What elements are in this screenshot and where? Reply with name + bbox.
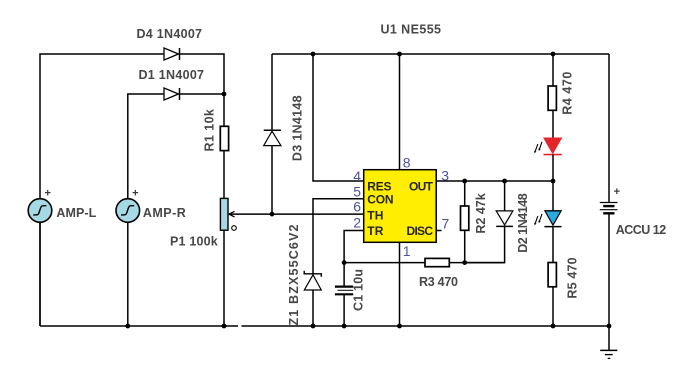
resistor R3 bbox=[425, 258, 449, 266]
node R2 bottom junction bbox=[462, 260, 467, 265]
svg-text:2: 2 bbox=[353, 215, 361, 231]
svg-text:TH: TH bbox=[367, 209, 383, 223]
wire wiper to TH bbox=[229, 213, 364, 215]
wire pin1 to rail bbox=[399, 242, 401, 326]
wire blue LED to R5 bbox=[552, 227, 554, 263]
node TR/C1/R3 junction bbox=[342, 260, 347, 265]
op-amp U1 NE555 body bbox=[364, 170, 437, 243]
wire RES pin4 bbox=[313, 54, 364, 181]
svg-text:8: 8 bbox=[403, 154, 411, 170]
svg-text:U1 NE555: U1 NE555 bbox=[381, 22, 442, 36]
wire pin8 bbox=[399, 54, 401, 170]
resistor R1 bbox=[220, 126, 228, 150]
wire R2 top bbox=[464, 181, 466, 206]
wire D4 to corner down bbox=[180, 54, 225, 94]
zener Z1 bbox=[304, 271, 321, 290]
wire R5 to rail bbox=[552, 287, 554, 326]
svg-text:ACCU 12: ACCU 12 bbox=[616, 223, 667, 237]
node OUT/D2 junction bbox=[502, 179, 507, 184]
wire AMP-L gap bottom bbox=[39, 222, 41, 326]
capacitor C1 bbox=[335, 287, 353, 295]
node battery rail bbox=[607, 324, 612, 329]
wire R3 right to D2 corner bbox=[449, 262, 504, 264]
svg-text:1: 1 bbox=[403, 243, 411, 259]
svg-text:C1 10u: C1 10u bbox=[352, 269, 366, 311]
wire AMP-R top to D1 bbox=[128, 94, 164, 199]
resistor R4 bbox=[548, 86, 556, 110]
svg-text:R1 10k: R1 10k bbox=[203, 109, 217, 151]
node AMP-R rail bbox=[125, 324, 130, 329]
wire R2 bottom bbox=[464, 230, 466, 262]
diode D2 bbox=[496, 211, 513, 227]
svg-text:D1 1N4007: D1 1N4007 bbox=[139, 68, 205, 82]
potentiometer P1 bbox=[220, 198, 236, 230]
node pin1 rail bbox=[397, 324, 402, 329]
svg-text:AMP-L: AMP-L bbox=[56, 206, 96, 220]
LED red bbox=[534, 138, 562, 155]
svg-text:+: + bbox=[44, 188, 50, 200]
svg-text:+: + bbox=[614, 186, 620, 198]
node OUT/LED junction bbox=[551, 179, 556, 184]
wire ground stem bbox=[608, 326, 610, 350]
node OUT/R2 junction bbox=[462, 179, 467, 184]
node Z1 rail bbox=[311, 324, 316, 329]
svg-text:+: + bbox=[132, 188, 138, 200]
wire battery bottom bbox=[608, 213, 610, 326]
wire R1 to P1 bbox=[223, 151, 225, 199]
wire OUT pin3 bbox=[436, 180, 553, 182]
svg-text:D4 1N4007: D4 1N4007 bbox=[137, 27, 203, 41]
svg-text:R4 470: R4 470 bbox=[561, 72, 575, 115]
wire top rail +V bbox=[272, 53, 609, 55]
node D3/TH junction bbox=[270, 212, 275, 217]
svg-text:CON: CON bbox=[367, 193, 393, 207]
svg-text:7: 7 bbox=[442, 215, 450, 231]
svg-text:Z1 BZX55C6V2: Z1 BZX55C6V2 bbox=[287, 224, 301, 325]
svg-text:RES: RES bbox=[367, 179, 391, 193]
wire bottom rail bbox=[40, 325, 609, 327]
wire C1 bottom to rail bbox=[343, 295, 345, 326]
node P1 rail bbox=[222, 324, 227, 329]
battery ACCU 12 bbox=[600, 203, 618, 214]
node R4 rail junction bbox=[551, 52, 556, 57]
svg-text:D3 1N4148: D3 1N4148 bbox=[291, 95, 305, 161]
resistor R2 bbox=[461, 206, 469, 230]
resistor R5 bbox=[548, 263, 556, 287]
source AMP-L bbox=[28, 199, 52, 223]
wire battery top bbox=[608, 54, 610, 202]
svg-text:TR: TR bbox=[367, 224, 383, 238]
svg-text:P1 100k: P1 100k bbox=[170, 234, 218, 248]
node pin8 rail junction bbox=[397, 52, 402, 57]
svg-text:DISC: DISC bbox=[407, 224, 434, 238]
svg-text:OUT: OUT bbox=[409, 179, 434, 193]
wire AMP-R bottom to rail bbox=[127, 222, 129, 326]
wire TR net to R3 bbox=[344, 262, 425, 264]
LED blue bbox=[534, 211, 561, 227]
svg-text:R2 47k: R2 47k bbox=[474, 193, 488, 233]
wire R4 top bbox=[552, 54, 554, 86]
svg-text:6: 6 bbox=[353, 199, 361, 215]
wire red LED to OUT node bbox=[552, 155, 554, 181]
wire D3 bottom to TH wire bbox=[271, 146, 273, 215]
wire C1 top bbox=[343, 263, 345, 286]
wire R4 to LED bbox=[552, 110, 554, 138]
wire OUT node to blue LED bbox=[552, 181, 554, 211]
wire D2 bottom to R2 node bbox=[465, 226, 505, 262]
wire D2 top bbox=[504, 181, 506, 211]
svg-text:R3 470: R3 470 bbox=[419, 275, 458, 289]
svg-text:AMP-R: AMP-R bbox=[143, 206, 186, 220]
node R5 rail bbox=[551, 324, 556, 329]
diode D1 bbox=[164, 88, 180, 100]
svg-text:D2 1N4148: D2 1N4148 bbox=[516, 193, 530, 253]
node C1 rail bbox=[342, 324, 347, 329]
svg-text:5: 5 bbox=[353, 184, 361, 200]
wire CON pin5 to Z1 bbox=[313, 199, 364, 274]
wire junction to R1 bbox=[223, 94, 225, 126]
wire P1 bottom to rail bbox=[223, 230, 225, 326]
svg-text:R5 470: R5 470 bbox=[566, 257, 580, 298]
wire TR pin2 bbox=[344, 231, 364, 263]
wire left loop AMP-L top to D4 bbox=[40, 54, 164, 326]
svg-text:4: 4 bbox=[353, 168, 361, 184]
wire D1 to junction bbox=[180, 93, 225, 95]
wire Z1 to rail bbox=[312, 290, 314, 326]
wire DISC stub bbox=[436, 230, 441, 232]
wire D3 top bbox=[271, 54, 273, 130]
ground bbox=[600, 350, 617, 358]
diode D4 bbox=[164, 48, 180, 60]
node junction D4/D1/R1 bbox=[222, 92, 227, 97]
source AMP-R bbox=[116, 199, 140, 223]
diode D3 bbox=[264, 130, 281, 145]
node RES rail junction bbox=[311, 52, 316, 57]
